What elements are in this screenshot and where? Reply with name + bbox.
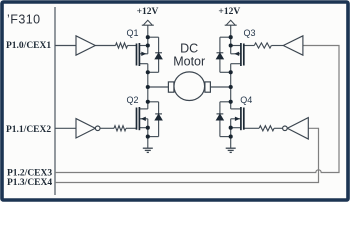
svg-text:P1.3/CEX4: P1.3/CEX4 xyxy=(7,178,52,188)
svg-text:+12V: +12V xyxy=(137,7,159,17)
svg-text:Q3: Q3 xyxy=(244,28,256,38)
svg-text:Q1: Q1 xyxy=(127,28,139,38)
svg-text:Q4: Q4 xyxy=(240,95,252,105)
svg-text:’F310: ’F310 xyxy=(7,13,41,27)
svg-text:Q2: Q2 xyxy=(127,95,139,105)
svg-text:P1.0/CEX1: P1.0/CEX1 xyxy=(6,41,51,51)
svg-text:P1.2/CEX3: P1.2/CEX3 xyxy=(7,168,52,178)
svg-text:DC: DC xyxy=(180,41,198,55)
svg-text:P1.1/CEX2: P1.1/CEX2 xyxy=(6,125,51,135)
svg-text:Motor: Motor xyxy=(173,54,205,68)
svg-text:+12V: +12V xyxy=(218,7,240,17)
